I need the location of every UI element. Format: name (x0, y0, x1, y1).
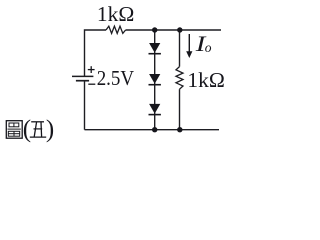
resistor R top 1k zigzag (106, 26, 126, 33)
node dot top right branch (177, 27, 182, 32)
battery minus sign (88, 83, 95, 85)
battery V1 top plate (long, +) (72, 75, 93, 77)
current Io arrow (186, 34, 192, 58)
node dot bottom right branch (177, 127, 182, 132)
glyph tu (picture): outer box (6, 121, 22, 139)
diode D1 (149, 43, 161, 55)
glyph tu middle bar (8, 128, 21, 130)
node dot bottom diode branch (152, 127, 157, 132)
wire diode branch (154, 30, 156, 130)
svg-text:1kΩ: 1kΩ (187, 68, 224, 92)
resistor R right 1k vertical zigzag (176, 67, 183, 90)
wire right resistor branch upper (179, 30, 181, 67)
label figure (five) chinese (6, 121, 22, 139)
glyph tu bottom small box (8, 131, 19, 136)
glyph tu inner top tick (13, 123, 15, 127)
wire left lower segment (84, 81, 86, 130)
glyph tu bottom inner marks (8, 133, 19, 135)
diode D2 (149, 74, 161, 86)
battery V1 bottom plate (short, -) (76, 80, 89, 82)
svg-text:2.5V: 2.5V (97, 66, 134, 90)
glyph five (30, 122, 46, 137)
glyph tu inner top small box (9, 123, 19, 127)
diode D3 (149, 104, 161, 116)
wire top-left segment and left vertical to battery (85, 30, 107, 76)
battery plus sign (88, 66, 95, 73)
wire bottom segment (85, 129, 220, 131)
svg-text:1kΩ: 1kΩ (97, 2, 134, 26)
node dot top diode branch (152, 27, 157, 32)
svg-text:): ) (46, 116, 54, 143)
svg-text:(: ( (23, 116, 31, 143)
wire top-right segment (126, 29, 221, 31)
svg-text:o: o (205, 40, 212, 55)
wire right resistor branch lower (179, 89, 181, 130)
